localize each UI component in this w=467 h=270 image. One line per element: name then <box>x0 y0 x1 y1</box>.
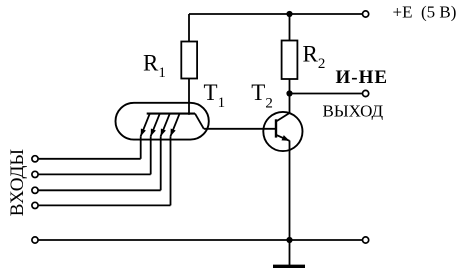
wire input 4 horizontal <box>39 204 171 206</box>
transistor T1 emitter arrowhead 4 <box>171 129 176 137</box>
terminal input 3 <box>32 187 38 193</box>
transistor T2 emitter arrowhead <box>282 135 290 141</box>
ground <box>273 265 305 268</box>
wire T2 collector <box>289 94 291 114</box>
svg-text:И-НЕ: И-НЕ <box>336 67 389 88</box>
wire input 1 horizontal <box>39 158 141 160</box>
transistor T1 emitter 3 <box>161 114 170 137</box>
terminal bottom left <box>32 237 38 243</box>
wire T1 collector to T2 base <box>204 128 275 130</box>
wire bottom rail <box>39 239 363 241</box>
wire R2 bottom <box>289 79 291 94</box>
wire input 4 vertical <box>170 136 172 205</box>
wire R1 bottom <box>188 79 190 115</box>
svg-text:ВХОДЫ: ВХОДЫ <box>7 149 28 216</box>
wire input 3 vertical <box>160 136 162 190</box>
transistor T1 multi-emitter body <box>116 103 209 140</box>
node output junction <box>286 90 292 96</box>
wire top rail <box>189 13 362 15</box>
transistor T1 emitter 1 <box>141 114 150 137</box>
transistor T1 emitter arrowhead 1 <box>141 129 146 137</box>
terminal input 2 <box>32 171 38 177</box>
terminal input 1 <box>32 156 38 162</box>
terminal +E <box>363 11 369 17</box>
wire input 2 vertical <box>150 136 152 174</box>
transistor T2 body circle <box>263 112 302 151</box>
node junction top rail <box>286 11 292 17</box>
terminal input 4 <box>32 202 38 208</box>
svg-text:ВЫХОД: ВЫХОД <box>323 102 384 121</box>
transistor T1 emitter arrowhead 3 <box>161 129 166 137</box>
terminal bottom right <box>363 237 369 243</box>
transistor T2 base bar <box>275 119 277 137</box>
wire output <box>290 93 363 95</box>
wire input 2 horizontal <box>39 173 151 175</box>
wire R1 top <box>188 14 190 42</box>
node bottom junction <box>286 237 292 243</box>
transistor T1 emitter 2 <box>151 114 160 137</box>
wire input 3 horizontal <box>39 189 161 191</box>
transistor T2 collector diagonal <box>276 113 290 122</box>
terminal output <box>363 90 369 96</box>
wire R2 top <box>289 14 291 41</box>
transistor T2 emitter diagonal <box>276 135 290 141</box>
transistor T1 emitter 4 <box>171 114 180 137</box>
wire ground stub <box>289 240 291 265</box>
transistor T1 emitter arrowhead 2 <box>151 129 156 137</box>
svg-text:+E (5 В): +E (5 В) <box>393 3 457 22</box>
wire input 1 vertical <box>140 136 142 159</box>
transistor T1 base bar <box>147 113 195 115</box>
resistor R1 <box>181 42 197 79</box>
resistor R2 <box>282 41 298 80</box>
transistor T1 collector diagonal <box>195 114 204 129</box>
wire T2 emitter down <box>289 141 291 241</box>
